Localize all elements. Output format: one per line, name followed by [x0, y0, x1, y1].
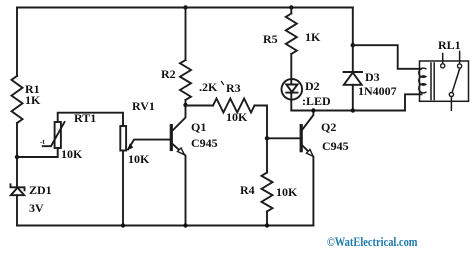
relay RL1 contact leads up — [443, 52, 460, 64]
wire top right drop — [352, 8, 354, 73]
svg-text:RV1: RV1 — [132, 99, 155, 113]
svg-text:10K: 10K — [226, 110, 248, 124]
wire R2 bottom lead — [185, 100, 187, 105]
svg-text:R4: R4 — [240, 183, 255, 197]
potentiometer RV1 body — [120, 126, 126, 151]
svg-text:C945: C945 — [191, 136, 218, 150]
wire R3 left lead — [186, 105, 214, 107]
svg-text:D3: D3 — [365, 70, 380, 84]
svg-text:1K: 1K — [305, 30, 321, 44]
node junction left-RT1 — [15, 155, 19, 159]
svg-text:R3: R3 — [226, 81, 241, 95]
svg-text:D2: D2 — [305, 79, 320, 93]
node junction R5 top rail — [289, 5, 293, 9]
thermistor RT1 — [43, 122, 65, 148]
svg-text:1N4007: 1N4007 — [358, 84, 397, 98]
wire R5 to LED — [290, 54, 292, 79]
wire RV1 wiper to Q1 base — [128, 140, 170, 150]
svg-text:10K: 10K — [128, 152, 150, 166]
wire R5 top lead — [290, 8, 292, 14]
svg-text:ZD1: ZD1 — [29, 183, 52, 197]
svg-text:C945: C945 — [322, 139, 349, 153]
relay RL1 box — [420, 61, 469, 101]
wire top rail — [17, 7, 353, 9]
resistor R5 — [286, 14, 297, 55]
transistor Q2 emitter arrowhead — [306, 150, 313, 157]
resistor R4 — [262, 173, 273, 212]
transistor Q1 collector — [173, 105, 186, 131]
zener diode ZD1 — [11, 184, 25, 195]
svg-text:1K: 1K — [25, 93, 41, 107]
RV1 wiper arrowhead — [127, 143, 133, 150]
wire R3 right lead to Q2 base junction — [255, 106, 268, 139]
relay RL1 coil — [419, 68, 426, 93]
svg-text:3V: 3V — [29, 201, 44, 215]
wire RT1 top to RV1 — [58, 113, 123, 126]
transistor Q2 emitter — [302, 146, 313, 226]
resistor R1 — [12, 76, 23, 123]
node junction R3-R4-Q2 base — [265, 136, 269, 140]
node junction R2 top rail — [183, 5, 187, 9]
node junction Q1 emitter-bottom rail — [183, 223, 187, 227]
wire LED bottom to collector rail — [291, 100, 405, 111]
svg-text:RL1: RL1 — [438, 38, 461, 52]
svg-text:©WatElectrical.com: ©WatElectrical.com — [327, 235, 418, 249]
relay RL1 switch arm — [452, 68, 460, 92]
wire Q2 base wire — [267, 137, 300, 139]
label R3 tick mark — [222, 82, 224, 85]
wire R4 bottom lead — [266, 212, 268, 226]
resistor R3 — [213, 99, 255, 113]
diode D3 — [344, 72, 363, 85]
wire R2 top lead — [185, 8, 187, 61]
node junction R2-R3-Q1 collector — [183, 103, 187, 107]
svg-text:Q1: Q1 — [191, 120, 206, 134]
node junction relay top branch — [351, 43, 355, 47]
wire left rail upper — [16, 8, 18, 77]
svg-text:R5: R5 — [263, 32, 278, 46]
wire left rail lower — [16, 195, 18, 225]
node junction R4-bottom rail — [265, 223, 269, 227]
transistor Q1 emitter arrowhead — [178, 148, 185, 155]
wire D3 anode down — [352, 85, 354, 111]
relay RL1 contact terminals — [441, 64, 462, 97]
svg-text:.2K: .2K — [199, 80, 218, 94]
wire relay coil bottom lead — [405, 94, 422, 110]
relay RL1 core — [431, 63, 434, 100]
transistor Q2 collector — [302, 111, 313, 130]
svg-text:R2: R2 — [161, 67, 176, 81]
node junction D3-collector rail — [351, 108, 355, 112]
wire R4 top lead — [266, 138, 268, 172]
wire bottom rail — [17, 225, 313, 227]
svg-text:10K: 10K — [276, 185, 298, 199]
node junction RV1-bottom rail — [121, 223, 125, 227]
transistor Q2 base bar — [300, 126, 303, 151]
relay RL1 common lead down — [450, 97, 452, 111]
wire relay coil top lead — [353, 45, 421, 69]
node junction Q2 collector — [311, 108, 315, 112]
svg-text:10K: 10K — [61, 147, 83, 161]
wire RV1 bottom lead — [122, 151, 124, 226]
resistor R2 — [180, 60, 191, 100]
transistor Q1 base bar — [170, 126, 173, 150]
svg-text:-t: -t — [40, 138, 45, 146]
wire left rail middle — [16, 123, 18, 187]
LED D2 — [282, 79, 303, 100]
transistor Q1 emitter — [173, 144, 186, 226]
wire RT1 bottom return — [17, 148, 58, 157]
svg-text::LED: :LED — [302, 94, 331, 108]
svg-text:Q2: Q2 — [321, 120, 336, 134]
